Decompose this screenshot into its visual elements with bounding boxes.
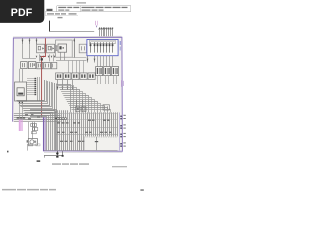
footer url <box>2 189 56 191</box>
page corner tick <box>7 151 9 153</box>
sensor B1 <box>75 100 82 111</box>
wire purple highlight <box>44 117 46 151</box>
corner-fed wires left of bus <box>30 110 57 151</box>
connector C2 <box>104 67 111 84</box>
fuse block F2 <box>28 62 35 69</box>
sensor B3 <box>103 105 109 110</box>
wire pink highlight <box>19 120 23 131</box>
wire with arrow right of K3 <box>72 38 86 58</box>
schematic frame <box>13 36 123 152</box>
document title text <box>77 2 87 3</box>
bus splice labels <box>25 114 40 119</box>
wire bundle staircase left <box>17 80 57 113</box>
bus label band left <box>17 117 26 118</box>
motor M1 <box>27 139 38 145</box>
wire red ignition feed <box>41 38 46 117</box>
relay module K3 with outer box <box>56 40 73 60</box>
label X2 right <box>119 41 122 51</box>
footer page number <box>140 189 143 191</box>
header table <box>45 6 131 19</box>
wires relay row to lower boxes <box>36 54 56 61</box>
relay K2 <box>47 44 55 53</box>
sensor B2 <box>81 107 86 112</box>
relay K2 side tab <box>55 46 57 51</box>
pin numbers outside frame <box>123 115 125 147</box>
splice labels row 1 <box>57 120 110 124</box>
wire harness vertical bus <box>56 110 118 150</box>
splice labels row 2 <box>57 132 112 133</box>
label C-520 vertical <box>121 80 123 87</box>
fuse block F1 <box>21 62 28 69</box>
dashed boundary bottom right <box>84 137 118 150</box>
connector block X2 highlighted box <box>87 40 118 56</box>
svg-text:PDF: PDF <box>11 7 33 19</box>
connector strip X5 right <box>120 113 122 151</box>
caption dash <box>37 160 41 161</box>
wire entries W1-W3 <box>22 38 38 58</box>
relay K1 side tab <box>45 46 47 51</box>
connector X10 top pins <box>95 21 113 37</box>
relay K1 <box>37 44 45 53</box>
relay K4 <box>79 44 86 53</box>
connector C3 <box>112 67 119 84</box>
caption right text <box>112 166 127 167</box>
PDF badge <box>0 0 44 23</box>
multi-pin connector X4 ladder <box>27 77 40 101</box>
flag post bottom left <box>28 144 41 151</box>
connector marks mid-left <box>31 124 38 134</box>
bus bottom rail <box>44 150 118 152</box>
caption text <box>52 163 89 164</box>
wire bundle staircase right <box>57 85 111 113</box>
bus tie wires <box>55 114 117 135</box>
junction bubbles <box>55 118 66 120</box>
ignition switch S1 <box>51 62 56 68</box>
fuse block F4 <box>44 62 51 68</box>
left drop wires <box>20 103 35 138</box>
wires from X2 pins <box>87 56 113 67</box>
ground G1 below frame <box>44 151 64 157</box>
splice labels row 3 <box>60 141 85 142</box>
connector C1 <box>96 67 103 84</box>
switch row S2-S6 <box>56 73 96 80</box>
bus wire node <box>56 60 87 73</box>
fuse block F3 <box>37 62 43 68</box>
horizontal wire bus <box>14 114 61 122</box>
connector X3 <box>15 69 27 103</box>
wire from battery B+ <box>49 21 94 32</box>
arrows below switch row <box>57 80 74 90</box>
